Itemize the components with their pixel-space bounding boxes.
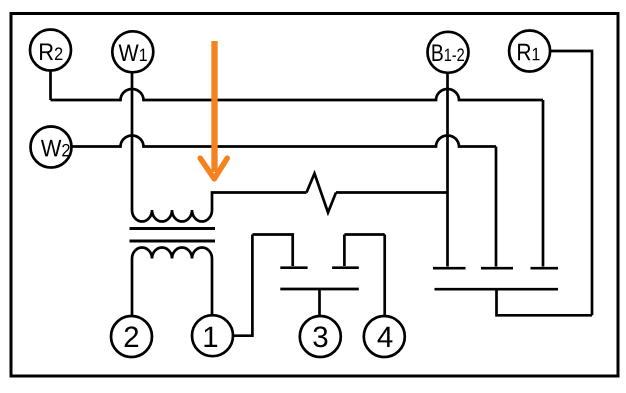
- label 1: [204, 327, 217, 347]
- wire middle drop from W2 wire to plate: [495, 147, 498, 267]
- transformer T1 secondary winding: [132, 248, 212, 259]
- terminal W2: [31, 127, 72, 168]
- capacitor plate bar middle: [481, 267, 513, 270]
- wire upper horizontal from R2 with hops over W1 and B1-2, to right drop: [51, 89, 544, 100]
- terminal R2: [30, 30, 71, 71]
- wire secondary right to terminal 1: [211, 259, 214, 316]
- label W1: [119, 44, 147, 61]
- terminal 2: [111, 316, 152, 357]
- igniter left gate top wire: [252, 235, 292, 267]
- terminal R1: [509, 31, 550, 72]
- label R1: [518, 44, 539, 61]
- terminal 4: [364, 316, 405, 357]
- igniter right plate: [332, 266, 359, 269]
- label 3: [313, 326, 327, 347]
- terminal B1-2: [428, 32, 469, 73]
- wire step from common bar down to R1 line: [497, 289, 593, 315]
- igniter right gate top wire: [344, 235, 384, 267]
- break squiggle in wire: [307, 174, 337, 213]
- capacitor plate bar left (B1-2): [433, 267, 466, 270]
- label W2: [41, 140, 70, 157]
- wire from squiggle to B1-2 vertical: [336, 191, 448, 194]
- wire terminal 4 up: [383, 235, 386, 317]
- label 4: [378, 327, 393, 347]
- label R2: [40, 43, 62, 60]
- pointer arrow (orange) head: [200, 158, 227, 179]
- wire W2 horizontal with hops over W1 and B1-2, to middle drop: [72, 136, 497, 147]
- terminal W1: [112, 31, 153, 72]
- terminal 1: [192, 315, 233, 356]
- label 2: [125, 326, 138, 347]
- capacitor plate bar right: [531, 267, 559, 270]
- transformer T1 primary winding: [132, 210, 212, 222]
- terminal 3: [300, 316, 341, 357]
- igniter left plate: [280, 266, 307, 269]
- pointer arrow (orange) shaft: [211, 41, 217, 172]
- label B1-2: [432, 44, 463, 61]
- wire terminal 3 stem: [318, 289, 321, 316]
- wire B1-2 vertical: [446, 73, 449, 267]
- wire terminal 1 stub right and up: [233, 235, 252, 336]
- wire primary right end up and across: [212, 193, 307, 211]
- wire R1 across and down right side: [550, 51, 592, 315]
- wire secondary left to terminal 2: [131, 259, 134, 317]
- wire W1 vertical: [131, 72, 134, 210]
- wire R2 stub down: [49, 71, 52, 101]
- igniter common plate: [280, 288, 359, 291]
- transformer T1 core: [130, 229, 216, 242]
- wire right drop from upper wire to plate: [542, 100, 545, 267]
- common plate long bar right side: [435, 288, 559, 291]
